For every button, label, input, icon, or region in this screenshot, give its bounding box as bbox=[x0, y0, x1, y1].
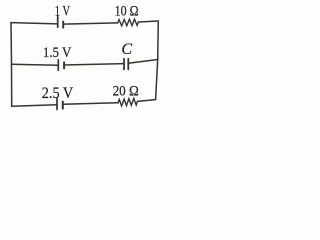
svg-text:C: C bbox=[121, 41, 132, 58]
svg-text:1 V: 1 V bbox=[55, 4, 70, 20]
svg-text:2.5 V: 2.5 V bbox=[42, 85, 74, 102]
svg-text:10 Ω: 10 Ω bbox=[115, 4, 139, 20]
svg-text:1.5 V: 1.5 V bbox=[43, 45, 72, 61]
svg-text:20 Ω: 20 Ω bbox=[113, 84, 139, 100]
